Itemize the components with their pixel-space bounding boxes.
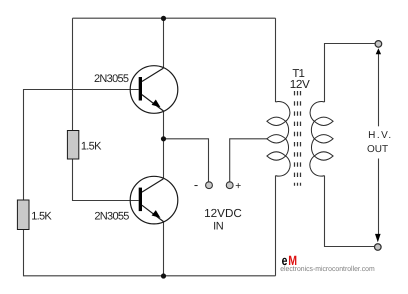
svg-text:+: +: [235, 181, 241, 192]
svg-text:2N3055: 2N3055: [94, 210, 129, 222]
svg-text:IN: IN: [213, 220, 224, 232]
svg-text:12VDC: 12VDC: [204, 207, 242, 220]
svg-text:2N3055: 2N3055: [94, 73, 129, 85]
svg-text:12V: 12V: [290, 78, 310, 91]
svg-text:1.5K: 1.5K: [31, 211, 52, 223]
svg-text:-: -: [194, 177, 198, 192]
svg-text:electronics-microcontroller.co: electronics-microcontroller.com: [280, 264, 375, 273]
svg-text:1.5K: 1.5K: [81, 141, 102, 153]
svg-text:H.V.: H.V.: [368, 130, 393, 141]
svg-text:OUT: OUT: [367, 144, 388, 155]
